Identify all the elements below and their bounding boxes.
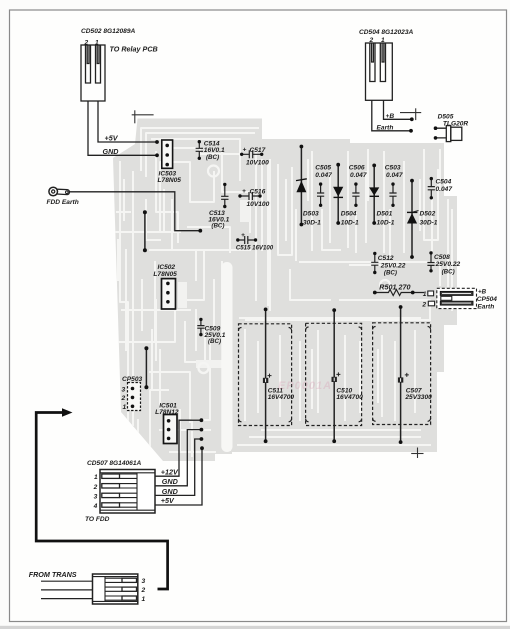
svg-text:4: 4 <box>93 503 98 510</box>
svg-text:(BC): (BC) <box>384 270 397 277</box>
svg-text:+B: +B <box>478 289 487 296</box>
capacitor C510 16V4700 <box>332 308 364 443</box>
svg-text:25V3300: 25V3300 <box>404 394 432 401</box>
capacitor C509 <box>197 318 225 346</box>
wire +5V to CD507 <box>155 446 204 505</box>
capacitor C507 25V3300 <box>398 305 432 444</box>
svg-text:0.047: 0.047 <box>315 172 332 179</box>
svg-text:+5V: +5V <box>161 496 175 505</box>
svg-text:D504: D504 <box>341 211 357 218</box>
wire GND (pin2) to CD507 <box>155 428 203 487</box>
svg-text:30D-1: 30D-1 <box>420 219 438 226</box>
connector CD504 8G12023A <box>359 29 413 100</box>
diode D501 10D-1 <box>369 164 395 227</box>
svg-text:CP504: CP504 <box>477 296 497 303</box>
cable run to FROM TRANS <box>36 408 167 589</box>
svg-text:+B: +B <box>386 113 395 120</box>
svg-text:C517: C517 <box>250 147 266 154</box>
svg-text:CD507 8G14061A: CD507 8G14061A <box>87 460 141 467</box>
svg-text:TO Relay PCB: TO Relay PCB <box>110 45 158 54</box>
capacitor C511 16V4700 <box>263 308 295 444</box>
PCB board outline <box>113 119 457 462</box>
svg-text:IC502: IC502 <box>158 264 176 271</box>
svg-text:1: 1 <box>142 596 146 603</box>
capacitor C503 <box>385 165 403 208</box>
wire TRANS 2 <box>41 589 93 591</box>
svg-text:3: 3 <box>122 386 126 393</box>
svg-text:(BC): (BC) <box>211 223 224 230</box>
trim mark near CD504 <box>400 108 421 120</box>
svg-text:1: 1 <box>423 291 427 298</box>
svg-text:D501: D501 <box>377 211 393 218</box>
svg-text:2: 2 <box>421 301 426 308</box>
diode D503 30D-1 <box>296 145 321 227</box>
svg-text:+5V: +5V <box>105 134 119 143</box>
wire GND (pin3) to CD507 <box>155 437 203 496</box>
diode D504 10D-1 <box>333 163 359 227</box>
wire jumper upper (x145) <box>143 210 147 252</box>
capacitor C504 <box>428 177 453 200</box>
svg-text:25V0.22: 25V0.22 <box>435 261 461 268</box>
svg-text:CD502 8G12089A: CD502 8G12089A <box>81 28 135 35</box>
svg-text:FROM TRANS: FROM TRANS <box>29 570 77 579</box>
svg-text:EP0001A: EP0001A <box>278 380 332 392</box>
connector CP503 <box>121 376 143 411</box>
svg-text:Earth: Earth <box>377 124 394 131</box>
svg-text:C515 16V100: C515 16V100 <box>236 244 274 251</box>
svg-text:10D-1: 10D-1 <box>377 219 395 226</box>
svg-text:+: + <box>242 188 246 195</box>
svg-text:+: + <box>243 146 247 153</box>
wire +5V from CD502 pin1 to IC503 <box>98 101 159 144</box>
wire GND from CD502 pin2 to IC503 <box>88 101 159 157</box>
resistor R501 270 <box>373 283 424 296</box>
wire jumper lower (x146) <box>144 346 148 389</box>
svg-text:R501 270: R501 270 <box>379 283 410 292</box>
svg-text:Earth: Earth <box>477 303 494 310</box>
svg-text:10V100: 10V100 <box>246 159 269 166</box>
svg-text:C505: C505 <box>315 165 331 172</box>
FDD Earth ring terminal <box>47 187 79 206</box>
heatsink outline for C511 <box>239 324 292 426</box>
svg-text:2: 2 <box>141 587 146 594</box>
heatsink outline for C510 <box>306 323 362 425</box>
wire TRANS 3 <box>41 580 93 582</box>
capacitor C506 <box>349 165 367 208</box>
PCB copper traces <box>115 128 452 456</box>
wire +12V to CD507 <box>155 418 203 476</box>
wire Earth from CD504 <box>372 100 413 132</box>
svg-text:0.047: 0.047 <box>386 172 403 179</box>
svg-text:C508: C508 <box>434 254 450 261</box>
svg-text:3: 3 <box>142 578 146 585</box>
svg-text:2: 2 <box>121 395 126 402</box>
connector CP504 <box>421 288 497 310</box>
capacitor C505 <box>315 165 332 208</box>
capacitor C517 <box>240 146 269 166</box>
svg-text:0.047: 0.047 <box>436 186 453 193</box>
LED D505 TLG20R <box>434 114 469 142</box>
svg-text:C516: C516 <box>250 189 266 196</box>
regulator IC503 L78N05 <box>158 140 182 184</box>
svg-text:C503: C503 <box>385 165 401 172</box>
svg-text:3: 3 <box>94 493 98 500</box>
svg-text:GND: GND <box>162 477 178 486</box>
svg-text:16V4700: 16V4700 <box>336 394 363 401</box>
svg-text:(BC): (BC) <box>208 338 221 345</box>
connector FROM TRANS <box>29 570 146 604</box>
connector CD502 8G12089A <box>81 28 158 101</box>
capacitor C512 <box>371 252 405 277</box>
svg-text:D505: D505 <box>438 114 454 121</box>
capacitor C513 <box>208 183 229 230</box>
svg-text:TO FDD: TO FDD <box>85 516 110 523</box>
regulator IC501 L78N12 <box>155 402 179 443</box>
connector CD507 8G14061A <box>85 460 155 523</box>
wire FDD Earth to board <box>70 192 203 233</box>
registration mark bottom-right of board <box>411 448 423 459</box>
capacitor C515 <box>236 232 274 251</box>
svg-text:L78N12: L78N12 <box>155 409 179 416</box>
svg-text:FDD Earth: FDD Earth <box>47 199 79 206</box>
svg-text:D503: D503 <box>303 211 319 218</box>
svg-text:25V0.22: 25V0.22 <box>380 262 406 269</box>
svg-text:16V4700: 16V4700 <box>268 394 295 401</box>
svg-text:(BC): (BC) <box>442 268 455 275</box>
wire +B from CD504 <box>384 100 414 121</box>
heatsink outline for C507 <box>373 323 431 425</box>
svg-text:GND: GND <box>103 147 119 156</box>
svg-text:2: 2 <box>93 484 98 491</box>
svg-text:L78N05: L78N05 <box>158 177 182 184</box>
svg-text:L78N05: L78N05 <box>153 271 177 278</box>
svg-text:10D-1: 10D-1 <box>341 219 359 226</box>
svg-text:10V100: 10V100 <box>247 201 270 208</box>
svg-text:0.047: 0.047 <box>350 172 367 179</box>
svg-text:+12V: +12V <box>161 468 179 477</box>
svg-text:C512: C512 <box>378 255 394 262</box>
svg-text:30D-1: 30D-1 <box>303 219 321 226</box>
capacitor C508 <box>427 251 460 275</box>
svg-text:(BC): (BC) <box>206 154 219 161</box>
capacitor C516 <box>238 188 269 208</box>
svg-text:C506: C506 <box>349 165 365 172</box>
svg-text:GND: GND <box>162 487 178 496</box>
svg-text:1: 1 <box>123 404 127 411</box>
wire TRANS 1 <box>41 598 93 600</box>
svg-text:D502: D502 <box>420 211 436 218</box>
capacitor C514 <box>196 140 225 161</box>
svg-text:CD504 8G12023A: CD504 8G12023A <box>359 29 413 36</box>
regulator IC502 L78N05 <box>153 264 177 309</box>
svg-text:C504: C504 <box>436 178 452 185</box>
svg-text:1: 1 <box>94 474 98 481</box>
registration mark top-left of board <box>132 110 154 123</box>
svg-text:+: + <box>241 232 245 239</box>
diode D502 30D-1 <box>407 179 438 259</box>
